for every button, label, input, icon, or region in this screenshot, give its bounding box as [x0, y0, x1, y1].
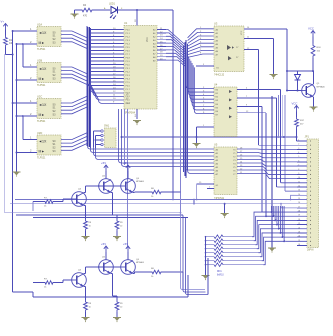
- wire bottom corner hatch: [181, 213, 209, 295]
- resistor R1: [4, 36, 14, 48]
- ground U4 pin1: [193, 137, 201, 148]
- rail 4 horizontal: [16, 214, 183, 216]
- wire light verticals right: [279, 95, 286, 191]
- U1 left pin numbers: [113, 28, 116, 104]
- svg-text:M►: M►: [39, 150, 45, 154]
- diode D2: [295, 71, 301, 92]
- svg-text:VCC: VCC: [147, 37, 149, 42]
- wire U1 right pins: [157, 28, 166, 61]
- power +V top-left: [1, 19, 8, 29]
- wire U3 output 12: [244, 48, 259, 145]
- connector JP1: [305, 134, 319, 251]
- ground left column: [13, 169, 21, 177]
- svg-text:◄1X: ◄1X: [39, 31, 48, 35]
- wire driver1 output to vertical: [163, 191, 181, 193]
- wire dark vertical x272: [271, 96, 273, 248]
- svg-text:7: 7: [298, 165, 299, 167]
- wire trunk vertical bus: [184, 40, 188, 178]
- svg-text:U1: U1: [124, 21, 128, 25]
- buffer IC U5: [214, 142, 237, 200]
- wire U4 output 9: [237, 105, 262, 212]
- wire U1 bottom verticals to drivers: [125, 109, 128, 246]
- wire R1 to rail: [6, 30, 14, 56]
- svg-text:TLP521: TLP521: [37, 84, 46, 87]
- svg-text:LED1: LED1: [109, 3, 116, 6]
- wire U5 pin 19 enable: [196, 182, 214, 200]
- wire bus F1 curves to U1 lower pins: [88, 84, 124, 104]
- svg-text:U2C: U2C: [37, 95, 42, 99]
- wire x173 x180 to rails: [180, 45, 182, 214]
- svg-text:3: 3: [298, 148, 299, 150]
- svg-text:U3: U3: [214, 21, 218, 25]
- LED LED1: [94, 3, 123, 20]
- wire SW1 to bus verticals: [94, 131, 96, 148]
- svg-text:◄1X: ◄1X: [39, 67, 48, 71]
- wire R34 to node: [286, 58, 314, 72]
- wire R37 to JP1 pin 1: [296, 129, 308, 142]
- opto-coupler U2D: [37, 131, 61, 159]
- svg-text:U2D: U2D: [37, 131, 42, 135]
- logic IC U4: [214, 82, 237, 136]
- svg-text:8: 8: [298, 169, 299, 171]
- svg-text:MPSA06: MPSA06: [136, 261, 145, 264]
- svg-text:U5: U5: [214, 142, 218, 146]
- svg-text:TLP521: TLP521: [37, 48, 46, 51]
- svg-text:SW1: SW1: [104, 125, 110, 128]
- wire opto outputs merge into bus: [61, 31, 88, 150]
- resistor R34: [311, 37, 321, 59]
- wire U2C pin 2: [16, 112, 38, 117]
- wire U3 output 14: [244, 27, 287, 90]
- ground U3 output 11: [270, 75, 278, 80]
- svg-text:8xR10: 8xR10: [217, 275, 224, 277]
- rail 5 horizontal: [33, 217, 188, 219]
- svg-text:1: 1: [298, 140, 299, 142]
- U1 pin 14 bottom: [135, 109, 137, 119]
- wire RN1 rows up to bundle: [252, 211, 285, 265]
- wire U3 pin 9: [196, 64, 214, 66]
- rail 3 horizontal: [5, 212, 181, 214]
- ground top R4: [71, 10, 79, 19]
- wire driver2 output to vertical: [163, 272, 183, 290]
- svg-text:4: 4: [298, 152, 299, 154]
- wire bus band F1 vertical: [87, 26, 91, 148]
- svg-text:U2B: U2B: [37, 59, 42, 63]
- resistor R4: [75, 4, 95, 18]
- wire x262 to pin18 bundle: [262, 211, 272, 213]
- wire rail link x194: [193, 199, 195, 205]
- ground U1 pin 14: [133, 121, 141, 126]
- svg-text:+5V: +5V: [123, 161, 128, 165]
- svg-text:VCC: VCC: [241, 30, 243, 35]
- svg-text:◄1X: ◄1X: [39, 103, 48, 107]
- switch SW1: [96, 125, 117, 148]
- wire U5 pin 1 stub: [207, 187, 214, 189]
- ground x272 bottom: [268, 248, 276, 253]
- wire U1 verticals to U5 rows 5-6: [119, 109, 215, 167]
- svg-text:V+: V+: [1, 19, 5, 23]
- ground RN1: [202, 273, 210, 280]
- power VCC top-right: [308, 26, 315, 36]
- rail 1 horizontal: [15, 199, 307, 201]
- wire x208 vertical up: [207, 258, 209, 295]
- logic IC U3: [214, 21, 244, 76]
- wire U4 output 12: [237, 111, 266, 216]
- power VCC2 right: [292, 101, 299, 111]
- svg-text:U4: U4: [214, 82, 218, 86]
- wire U3 output 11 to ground: [244, 37, 274, 74]
- svg-text:VCC: VCC: [292, 101, 298, 105]
- wire long vertical left C: [16, 44, 18, 169]
- svg-text:+5V: +5V: [101, 242, 106, 246]
- wire trunk to U4 left pins: [188, 27, 214, 57]
- opto-coupler U2B: [37, 59, 61, 87]
- svg-text:JP1: JP1: [305, 134, 310, 138]
- svg-text:M►: M►: [39, 113, 45, 117]
- resistor R_out driver2: [13, 292, 33, 297]
- wire U4 output 4: [237, 88, 281, 183]
- wire long horizontal node137: [121, 136, 297, 138]
- svg-text:26: 26: [298, 244, 300, 246]
- svg-text:74HC132: 74HC132: [214, 74, 225, 77]
- wire U4 output 7: [237, 96, 277, 187]
- wire rail2 to JP1 pin 17: [280, 203, 307, 208]
- svg-text:TLP521: TLP521: [37, 156, 46, 159]
- U1 pin 28 top: [135, 10, 137, 26]
- wire U2B pin 1: [23, 63, 37, 67]
- wire base rail Q1: [286, 90, 302, 92]
- wire bundle to JP1 pins 18-25: [272, 206, 308, 241]
- svg-text:+5V: +5V: [101, 161, 106, 165]
- wire LED1 to U1 pin28 and down: [115, 9, 173, 200]
- svg-text:◄1X: ◄1X: [39, 140, 48, 144]
- wire U2C pin 1: [12, 99, 37, 104]
- wire U2D pin 2: [16, 149, 38, 154]
- transistor Q1: [302, 83, 326, 97]
- wire bus F1 to U1 left pins: [90, 30, 124, 90]
- wire fan to trunk: [166, 30, 186, 68]
- microcontroller U1: [124, 21, 157, 115]
- wire U2D pin 1: [23, 136, 37, 140]
- wire U2A pin 2: [16, 40, 38, 45]
- wire driver2 bottom loop: [33, 275, 188, 297]
- wire U2A pin 1: [12, 27, 37, 32]
- wire SW verticals to U5 rows 3-4: [94, 147, 215, 160]
- svg-text:6: 6: [298, 160, 299, 162]
- wire U3 out12 to JP1 pin2: [259, 144, 308, 146]
- svg-text:MPSA06: MPSA06: [317, 85, 326, 88]
- resistor R37: [295, 112, 305, 129]
- wire U4 pin 1: [196, 125, 215, 138]
- ground Q1 emitter: [310, 107, 318, 112]
- svg-text:26PIN: 26PIN: [307, 250, 314, 252]
- wire Q1 emitter: [313, 97, 315, 107]
- wire x266 join pin19 bundle: [265, 215, 273, 217]
- svg-text:10: 10: [298, 177, 300, 179]
- wire rail to JP1 pin 14: [290, 195, 307, 200]
- svg-text:TLP521: TLP521: [37, 120, 46, 123]
- opto-coupler U2C: [37, 95, 61, 123]
- wire pin1 chain links: [22, 43, 24, 139]
- wire SW bus to U5 rows 1-2: [88, 146, 214, 153]
- svg-text:+5V: +5V: [123, 242, 128, 246]
- svg-text:RN1: RN1: [217, 271, 222, 273]
- svg-text:U2A: U2A: [37, 23, 42, 27]
- wire U2B pin 2: [16, 76, 38, 81]
- svg-text:EPM7064: EPM7064: [124, 112, 136, 115]
- svg-text:RST: RST: [126, 103, 131, 105]
- JP1 pin stubs: [297, 140, 307, 247]
- wire U5 outputs to connector: [237, 147, 307, 178]
- wire Q1 collector: [313, 71, 315, 84]
- svg-text:VCC: VCC: [308, 26, 314, 30]
- rail 2 horizontal: [10, 203, 307, 205]
- wire long vertical left B: [12, 31, 14, 292]
- resistor R_out driver1: [5, 202, 33, 212]
- svg-text:9: 9: [298, 173, 299, 175]
- wire trunk to U5 left pins: [186, 52, 214, 114]
- wire verticals to JP1 pins 11-13: [277, 183, 308, 191]
- wire trunk to U5 rows 7-8: [185, 167, 214, 176]
- wire long vertical left A: [4, 55, 7, 213]
- resistor network RN1: [205, 235, 264, 277]
- svg-text:5: 5: [298, 156, 299, 158]
- ground below U5: [221, 203, 229, 218]
- svg-text:MPSA06: MPSA06: [136, 180, 145, 183]
- svg-text:M►: M►: [39, 77, 45, 81]
- svg-text:470: 470: [83, 15, 88, 18]
- svg-text:M►: M►: [39, 41, 45, 45]
- opto-coupler U2A: [37, 23, 61, 51]
